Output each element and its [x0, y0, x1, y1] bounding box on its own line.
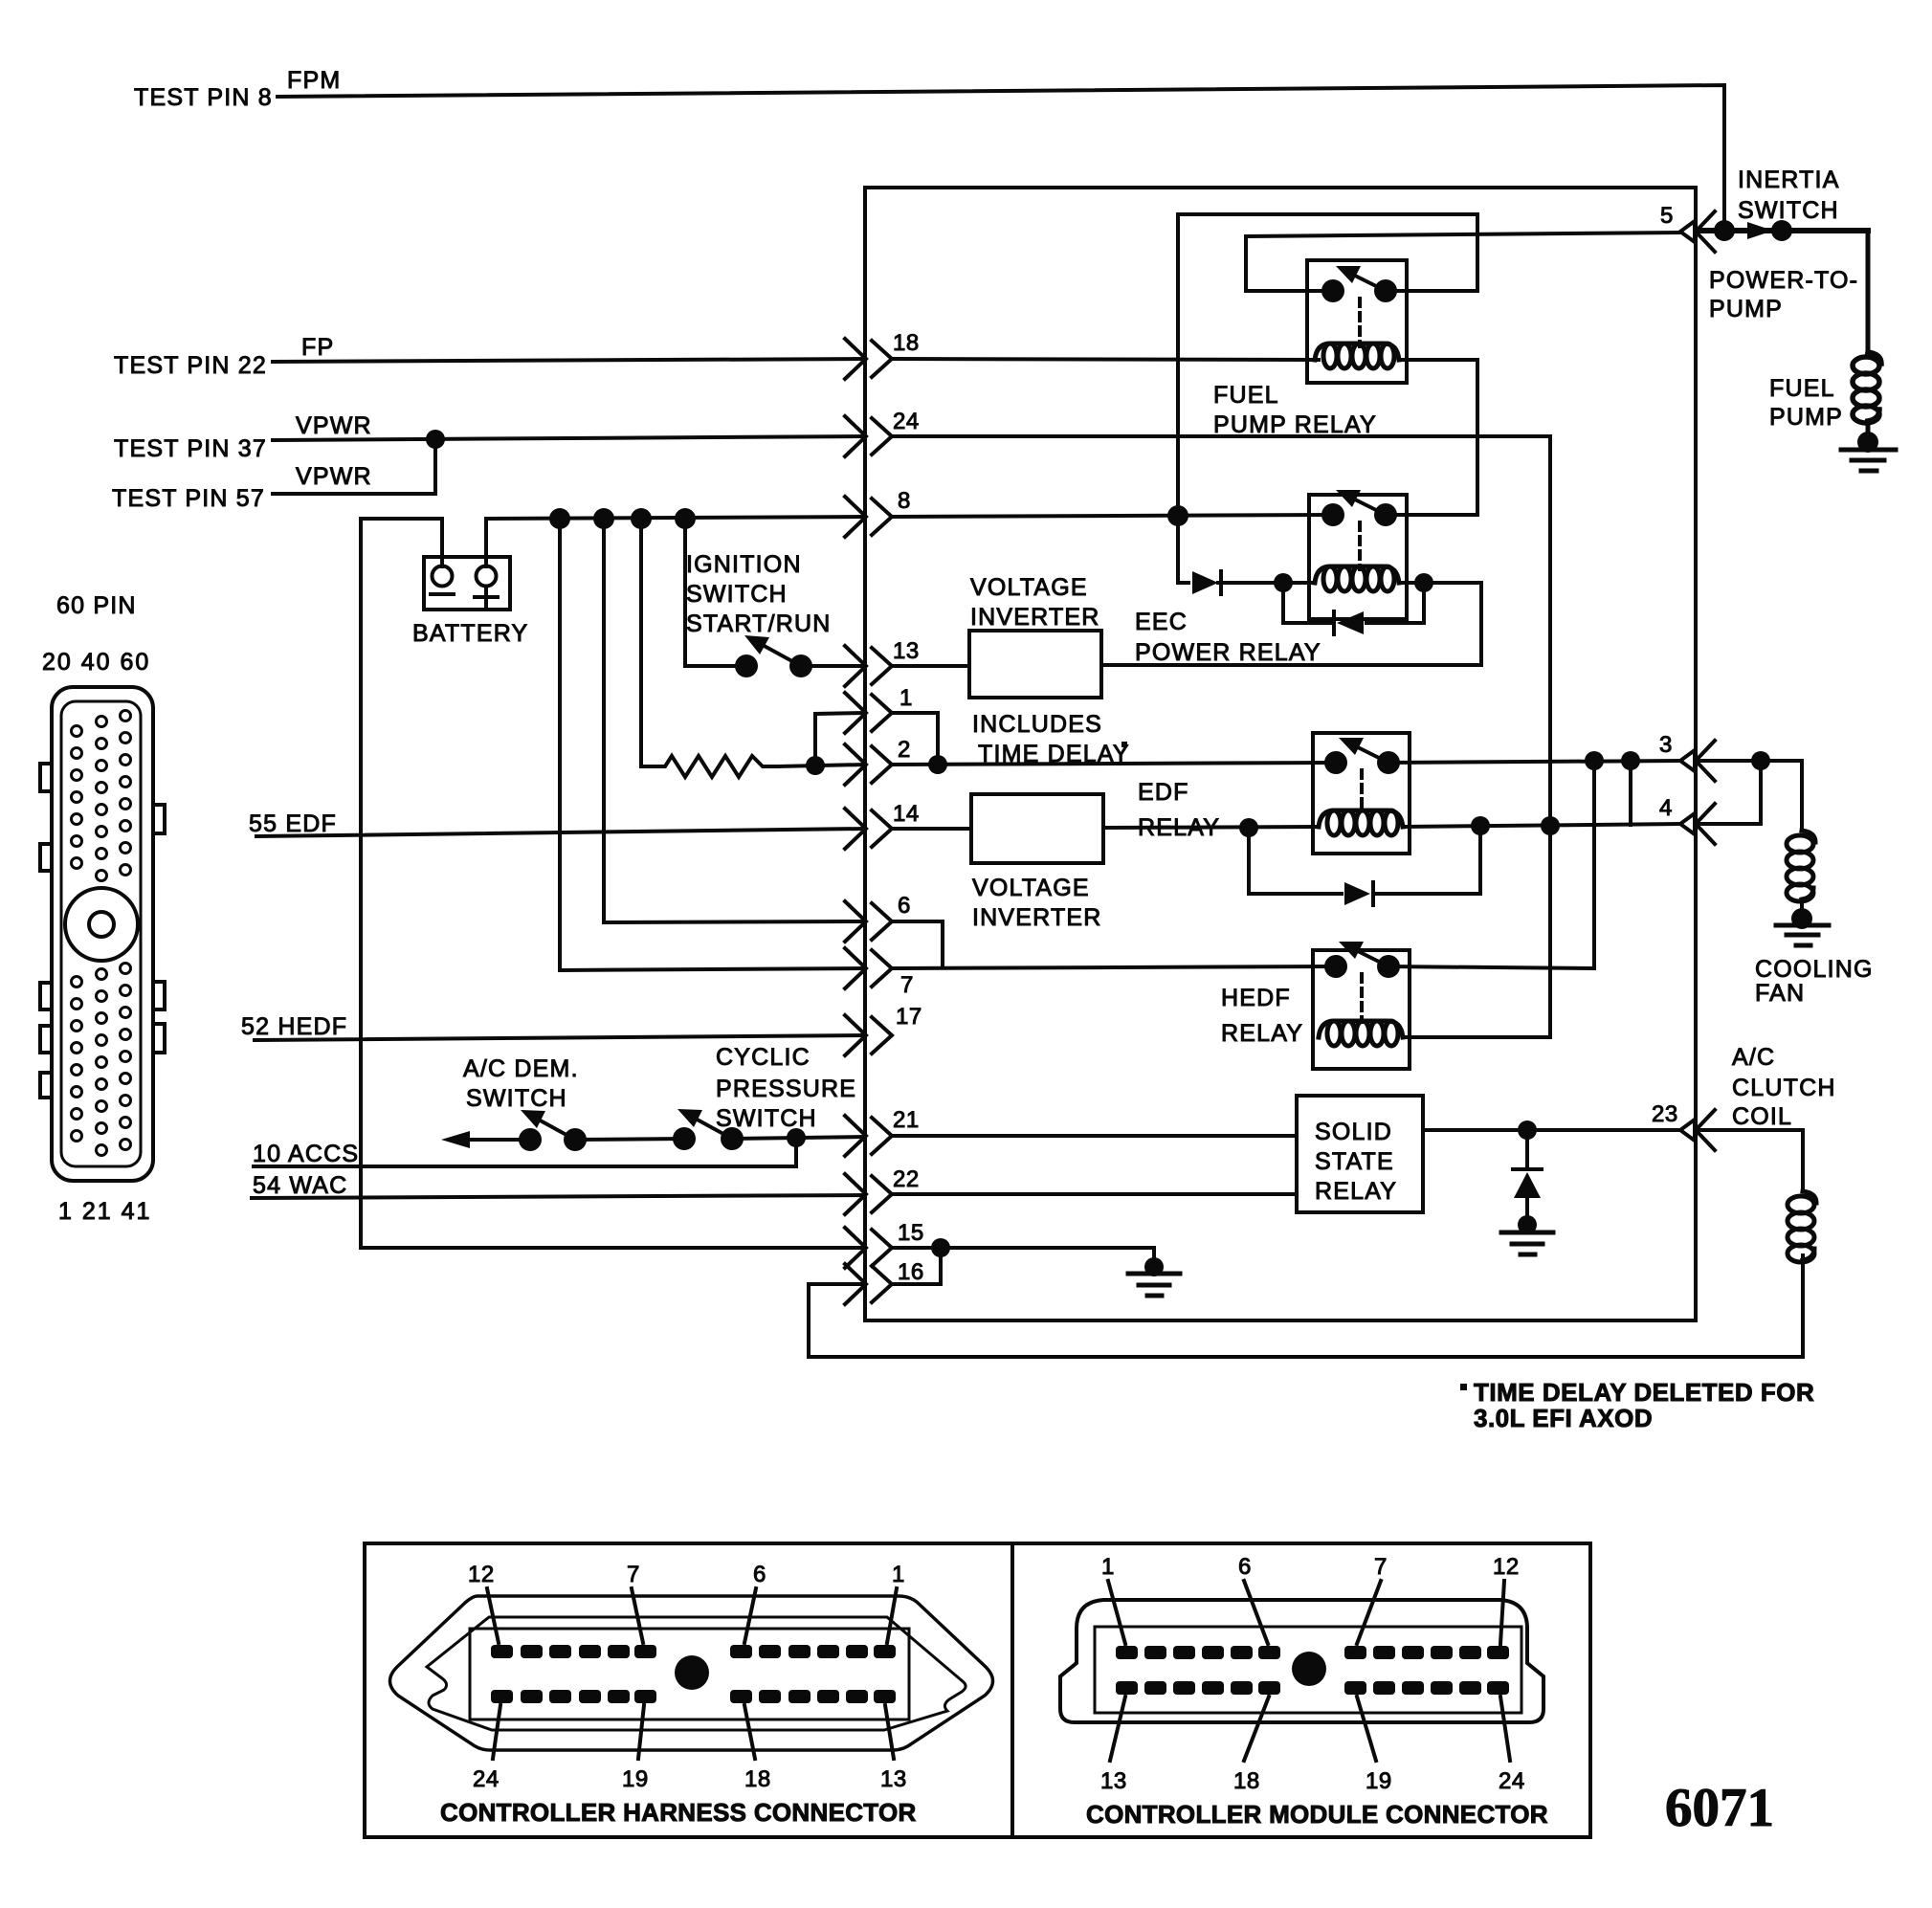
svg-text:CONTROLLER HARNESS CONNECTOR: CONTROLLER HARNESS CONNECTOR — [440, 1798, 917, 1827]
wire HEDF coil right to VPWR drop — [1403, 1035, 1550, 1039]
svg-text:1: 1 — [899, 685, 913, 711]
junction dot B on pin-8 feed — [593, 508, 614, 529]
svg-text:VOLTAGE: VOLTAGE — [970, 574, 1088, 601]
svg-text:CYCLIC: CYCLIC — [716, 1044, 811, 1071]
svg-text:PRESSURE: PRESSURE — [716, 1076, 856, 1102]
svg-text:TEST PIN 57: TEST PIN 57 — [112, 485, 265, 512]
svg-text:52 HEDF: 52 HEDF — [241, 1013, 347, 1040]
harness pin 6 label and leader — [744, 1562, 766, 1643]
svg-text:PUMP: PUMP — [1769, 404, 1843, 431]
HEDF relay left contact — [1324, 955, 1347, 978]
wire pin 13 to voltage inverter 1 — [892, 664, 969, 668]
svg-text:TEST PIN 37: TEST PIN 37 — [114, 435, 267, 462]
wire drop A to pin 7 — [560, 519, 865, 970]
EDF relay left contact — [1324, 751, 1347, 774]
wire FPM from TEST PIN 8 to inertia switch node — [278, 85, 1724, 231]
svg-text:24: 24 — [893, 409, 920, 434]
pin 5 connector chevron on rail — [1680, 211, 1715, 252]
wire pin 18 to fuel pump relay coil — [892, 359, 1319, 360]
EDF relay K3 box — [1313, 733, 1410, 854]
svg-text:STATE: STATE — [1315, 1148, 1394, 1175]
cyclic pressure switch left contact — [673, 1127, 696, 1150]
EEC power relay arm with arrowhead — [1336, 490, 1386, 515]
wire pin 8 to EEC relay switch — [892, 515, 1333, 517]
wire battery positive up to VPWR feed — [484, 519, 488, 566]
EEC power relay coil — [1315, 566, 1399, 591]
wire pin 7 to HEDF relay switch — [892, 966, 1333, 968]
connector J1 60-pin shell outer — [52, 687, 153, 1181]
module connector top row pins — [1116, 1646, 1509, 1659]
svg-text:24: 24 — [473, 1766, 500, 1792]
svg-text:5: 5 — [1660, 203, 1674, 229]
wire pin 16 left jog to A/C clutch return — [809, 1255, 1803, 1357]
module pin 13 label and leader — [1100, 1697, 1127, 1794]
EDF relay dashed actuator link — [1360, 770, 1364, 813]
svg-text:SOLID: SOLID — [1315, 1119, 1392, 1145]
pin 14 connector chevrons — [845, 809, 892, 849]
EEC power relay dashed actuator link — [1358, 522, 1362, 569]
fuel pump relay coil — [1315, 344, 1399, 368]
svg-text:HEDF: HEDF — [1221, 985, 1291, 1011]
svg-text:IGNITION: IGNITION — [686, 551, 802, 578]
ground symbol G4 (pin 15/16) — [1128, 1257, 1180, 1296]
svg-text:19: 19 — [1366, 1768, 1392, 1794]
svg-text:BATTERY: BATTERY — [412, 620, 528, 647]
pin 17 connector chevrons — [845, 1015, 892, 1055]
EEC power relay K2 box — [1309, 495, 1407, 619]
junction dot C on pin-8 feed — [631, 508, 652, 529]
HEDF relay dashed actuator link — [1360, 974, 1364, 1022]
svg-text:COOLING: COOLING — [1755, 956, 1874, 983]
svg-text:TIME DELAY DELETED FOR: TIME DELAY DELETED FOR — [1474, 1378, 1814, 1407]
wire inverter 1 output to EEC relay coil right — [1101, 583, 1481, 665]
EDF relay right contact — [1377, 751, 1400, 774]
junction dot pin3 at x1704 — [1621, 751, 1640, 770]
ground symbol G2 (cooling fan) — [1776, 908, 1829, 945]
pin 6 connector chevrons — [845, 901, 892, 942]
ground symbol G1 (fuel pump) — [1841, 432, 1896, 471]
wire HEDF switch-right riser — [1388, 761, 1594, 968]
cooling fan motor coil M2 — [1787, 831, 1815, 901]
svg-text:VPWR: VPWR — [296, 412, 372, 439]
wire fuel pump relay switch-right to riser — [1386, 289, 1477, 293]
wire A/C demand to cyclic pressure switch — [575, 1139, 684, 1140]
wire cooling fan to ground — [1800, 899, 1804, 909]
harness connector pin field rect — [470, 1629, 909, 1719]
wire EEC relay switch-right to VPWR riser — [1386, 513, 1477, 517]
svg-text:18: 18 — [744, 1766, 771, 1792]
wire drop to ground from pin15/16 — [1152, 1248, 1156, 1259]
wire EDF coil right to pin 4 — [1403, 824, 1680, 827]
harness pin 24 label and leader — [473, 1705, 500, 1792]
harness pin 12 label and leader — [468, 1562, 499, 1643]
battery plus sign — [475, 587, 498, 608]
wire pin 2 to EDF relay switch — [892, 763, 1333, 765]
svg-text:1: 1 — [892, 1562, 905, 1587]
battery B1 box — [424, 557, 510, 610]
wire diode to EEC coil — [1283, 581, 1315, 585]
pin 15 connector chevrons — [845, 1228, 892, 1268]
pin 13 connector chevrons — [845, 646, 892, 686]
module pin 18 label and leader — [1233, 1697, 1269, 1794]
svg-text:18: 18 — [1233, 1768, 1260, 1794]
svg-text:7: 7 — [1374, 1554, 1388, 1580]
junction dot EDF flyback right — [1471, 816, 1490, 835]
harness pin 7 label and leader — [627, 1562, 643, 1643]
svg-text:10 ACCS: 10 ACCS — [253, 1141, 359, 1167]
wire pin 3 to cooling fan — [1696, 761, 1802, 831]
wire pin 16 jumper up to pin 15 — [892, 1248, 941, 1284]
svg-text:A/C DEM.: A/C DEM. — [463, 1055, 579, 1082]
wire pin 6 jumper down to pin 7 line — [892, 921, 943, 967]
HEDF relay right contact — [1377, 955, 1400, 978]
wire drop C to resistor — [641, 519, 657, 766]
harness pin 13 label and leader — [880, 1705, 907, 1792]
battery minus sign — [431, 592, 454, 596]
svg-text:55 EDF: 55 EDF — [249, 810, 337, 837]
svg-text:13: 13 — [893, 638, 920, 664]
svg-text:2: 2 — [898, 737, 911, 763]
HEDF relay coil — [1319, 1021, 1403, 1046]
svg-text:INCLUDES: INCLUDES — [972, 711, 1102, 738]
wire pin 1 to pin 2 jumper right side — [892, 713, 938, 765]
svg-text:EDF: EDF — [1138, 779, 1189, 806]
A/C demand switch open-end arrow — [441, 1131, 530, 1148]
wire 10 ACCS jog — [254, 1138, 796, 1166]
wire VPWR riser to fuel pump relay common — [1178, 214, 1477, 516]
pin 23 connector chevron on rail — [1680, 1110, 1715, 1150]
voltage inverter U2 box — [971, 794, 1103, 863]
svg-text:24: 24 — [1499, 1768, 1525, 1794]
svg-text:TEST PIN 22: TEST PIN 22 — [114, 352, 267, 379]
module pin 12 label and leader — [1493, 1554, 1520, 1644]
junction dot pin 15 right — [931, 1238, 950, 1257]
harness pin 18 label and leader — [744, 1705, 771, 1792]
junction dot cooling fan tap — [1751, 751, 1770, 770]
wire resistor to pin 2 — [778, 765, 865, 766]
module pin 19 label and leader — [1357, 1697, 1392, 1794]
fuel pump relay dashed actuator link — [1358, 299, 1362, 346]
svg-text:SWITCH: SWITCH — [686, 581, 788, 608]
svg-text:1: 1 — [1101, 1554, 1115, 1580]
EEC module box right rail — [1694, 188, 1698, 1320]
module pin 1 label and leader — [1101, 1554, 1125, 1644]
svg-text:6071: 6071 — [1665, 1778, 1774, 1838]
svg-text:1 21 41: 1 21 41 — [58, 1198, 151, 1225]
svg-text:15: 15 — [898, 1220, 924, 1246]
battery terminal positive circle — [477, 566, 497, 587]
HEDF relay K4 box — [1313, 950, 1410, 1069]
svg-text:INVERTER: INVERTER — [970, 604, 1100, 631]
inertia switch right contact — [1771, 220, 1792, 241]
clamp diode D4 to ground — [1513, 1130, 1542, 1216]
svg-text:CLUTCH: CLUTCH — [1732, 1075, 1836, 1101]
note asterisk — [1460, 1384, 1467, 1390]
ignition switch left contact — [735, 654, 758, 677]
svg-text:FAN: FAN — [1755, 980, 1805, 1007]
wire inertia switch down to fuel pump (heavy) — [1866, 231, 1871, 352]
label TIME DELAY* — [978, 741, 1130, 767]
inertia switch left contact — [1714, 220, 1735, 241]
ignition switch right contact — [789, 654, 812, 677]
wire ignition switch to pin 13 — [801, 664, 865, 668]
junction dot pin 2 right — [928, 755, 947, 774]
svg-text:17: 17 — [896, 1004, 922, 1030]
svg-text:19: 19 — [622, 1766, 649, 1792]
pin 21 connector chevrons — [845, 1116, 892, 1156]
fuel pump relay left contact — [1321, 279, 1344, 302]
svg-text:16: 16 — [898, 1259, 924, 1285]
svg-text:PUMP: PUMP — [1709, 296, 1783, 322]
connector J1 left tabs — [40, 764, 52, 1098]
cyclic pressure switch right contact — [721, 1127, 744, 1150]
junction dot EEC coil left — [1274, 573, 1293, 592]
wire drop D to ignition switch — [685, 519, 746, 666]
svg-text:COIL: COIL — [1732, 1103, 1792, 1130]
diode D1 EEC coil feed — [1192, 571, 1283, 594]
svg-text:7: 7 — [900, 972, 914, 998]
svg-text:6: 6 — [1238, 1554, 1252, 1580]
wire EDF switch right to pin 3 — [1388, 761, 1680, 763]
solid state relay U3 box — [1297, 1096, 1423, 1212]
inertia switch arrow — [1747, 222, 1773, 239]
svg-text:6: 6 — [753, 1562, 766, 1587]
svg-text:7: 7 — [627, 1562, 640, 1587]
svg-text:6: 6 — [898, 893, 911, 919]
pin 18 connector chevrons — [845, 339, 892, 379]
harness connector top row pins — [491, 1645, 896, 1658]
connector J1 right tabs — [153, 805, 165, 1053]
module pin 6 label and leader — [1238, 1554, 1268, 1644]
wire pin 5 to inertia switch (heavy) — [1698, 228, 1868, 233]
junction dot ACCS tap — [787, 1128, 806, 1147]
ignition switch arm with arrowhead — [744, 635, 801, 666]
fuel pump relay right contact — [1374, 279, 1397, 302]
pin 4 connector chevron on rail — [1680, 804, 1715, 844]
module connector pin field rect — [1095, 1627, 1521, 1713]
svg-text:SWITCH: SWITCH — [1738, 197, 1839, 224]
wire 55 EDF to pin 14 — [256, 829, 865, 836]
pin 2 connector chevrons — [845, 744, 892, 785]
svg-text:14: 14 — [893, 801, 920, 827]
svg-text:13: 13 — [880, 1766, 907, 1792]
pin 24 connector chevrons — [845, 416, 892, 456]
wire EEC coil right — [1399, 581, 1481, 585]
svg-text:4: 4 — [1659, 795, 1673, 821]
module pin 7 label and leader — [1357, 1554, 1388, 1644]
fuel pump motor coil M1 — [1853, 352, 1881, 423]
wire pin 23 to A/C clutch coil — [1696, 1130, 1803, 1191]
wire battery negative up to ground rail — [440, 519, 444, 566]
svg-text:21: 21 — [893, 1107, 920, 1133]
ground symbol G3 (clamp diode) — [1501, 1215, 1553, 1254]
connector J1 pin holes upper block — [72, 711, 131, 881]
junction dot VPWR drop on EDF coil line — [1541, 816, 1560, 835]
fuel pump relay K1 box — [1307, 260, 1407, 383]
svg-text:12: 12 — [468, 1562, 495, 1587]
svg-text:RELAY: RELAY — [1315, 1178, 1397, 1205]
cyclic pressure switch arm with arrowhead — [677, 1109, 732, 1139]
HEDF relay arm with arrowhead — [1339, 942, 1388, 966]
wire FP to pin 18 — [273, 359, 865, 362]
svg-text:INERTIA: INERTIA — [1738, 166, 1840, 193]
harness pin 19 label and leader — [622, 1705, 649, 1792]
junction dot SSR output — [1518, 1120, 1537, 1140]
svg-text:FP: FP — [301, 334, 334, 361]
svg-text:23: 23 — [1652, 1101, 1678, 1127]
svg-text:TEST PIN 8: TEST PIN 8 — [134, 84, 273, 111]
junction dot EDF coil left — [1239, 818, 1258, 837]
svg-text:POWER RELAY: POWER RELAY — [1135, 639, 1321, 666]
svg-text:12: 12 — [1493, 1554, 1520, 1580]
junction dot D on pin-8 feed — [675, 508, 696, 529]
pin 3 connector chevron on rail — [1680, 741, 1715, 781]
EDF relay arm with arrowhead — [1339, 738, 1388, 763]
connector J1 shell inner — [61, 701, 141, 1166]
wire 52 HEDF to pin 17 — [255, 1035, 865, 1040]
connector J1 index inner circle — [89, 912, 114, 937]
controller module connector panel box — [1012, 1543, 1590, 1837]
wire drop B to pin 6 — [604, 519, 865, 922]
junction VPWR tie point — [426, 430, 445, 449]
connector J1 pin holes lower block — [72, 964, 131, 1156]
junction dot A on pin-8 feed — [549, 508, 570, 529]
wire 54 WAC to pin 22 — [252, 1195, 865, 1198]
pin 7 connector chevrons — [845, 948, 892, 988]
connector J1 index big circle — [65, 888, 138, 961]
pin 16 connector chevrons — [845, 1264, 892, 1304]
svg-text:60 PIN: 60 PIN — [56, 592, 137, 619]
module connector bottom row pins — [1116, 1681, 1509, 1695]
EDF relay coil — [1319, 810, 1403, 835]
wire fuel pump to ground — [1866, 421, 1871, 435]
svg-text:18: 18 — [893, 330, 920, 356]
harness pin 1 label and leader — [887, 1562, 905, 1643]
harness connector bottom row pins — [491, 1690, 896, 1703]
wire cyclic pressure switch to pin 21 — [732, 1137, 865, 1139]
wire ground rail: battery negative to pin 15 — [361, 519, 865, 1248]
svg-text:22: 22 — [893, 1166, 920, 1192]
battery terminal negative circle — [433, 566, 453, 587]
pin 1 connector chevrons — [845, 693, 892, 733]
svg-text:POWER-TO-: POWER-TO- — [1709, 267, 1858, 294]
EDF relay flyback diode D3 loop — [1249, 826, 1480, 905]
junction dot pin-8 at x1231 — [1167, 505, 1188, 526]
svg-text:VPWR: VPWR — [296, 463, 372, 490]
svg-text:RELAY: RELAY — [1138, 814, 1220, 841]
A/C demand switch arm with arrowhead — [521, 1110, 575, 1140]
wire VPWR to pin 24 — [273, 436, 865, 440]
svg-text:FUEL: FUEL — [1769, 375, 1835, 402]
svg-text:SWITCH: SWITCH — [466, 1085, 567, 1112]
wire VPWR feed: battery positive to pin 8 — [486, 517, 865, 519]
EEC module bus vertical — [863, 188, 867, 1320]
svg-text:EEC: EEC — [1135, 609, 1188, 635]
wire jog resistor node up to pin 1 — [815, 713, 865, 765]
wire fuel pump relay coil right to VPWR — [1399, 360, 1477, 515]
harness connector shell inner hexagon — [427, 1617, 966, 1730]
svg-text:3.0L EFI AXOD: 3.0L EFI AXOD — [1474, 1404, 1653, 1432]
EEC relay flyback diode D2 loop — [1283, 583, 1424, 634]
controller harness connector panel box — [365, 1543, 1012, 1837]
wire pin 4 jumper to pin 3 — [1696, 761, 1761, 824]
wire pin4 jog from pin3 line — [1629, 761, 1632, 825]
module connector center index dot — [1292, 1652, 1326, 1686]
svg-text:8: 8 — [898, 488, 911, 514]
svg-text:VOLTAGE: VOLTAGE — [972, 875, 1090, 901]
fuel pump relay arm with arrowhead — [1336, 266, 1386, 291]
svg-text:54 WAC: 54 WAC — [253, 1172, 347, 1199]
svg-text:CONTROLLER MODULE CONNECTOR: CONTROLLER MODULE CONNECTOR — [1086, 1800, 1548, 1829]
svg-text:START/RUN: START/RUN — [686, 610, 832, 637]
wire pin 24 VPWR line — [892, 434, 1550, 438]
module pin 24 label and leader — [1499, 1697, 1525, 1794]
EEC module box bottom edge — [865, 1319, 1696, 1322]
wire pin 21 to solid state relay — [892, 1134, 1297, 1138]
A/C demand switch right contact — [564, 1128, 587, 1151]
junction dot after resistor — [806, 756, 825, 775]
wire pin 15 to ground drop — [892, 1246, 1154, 1250]
pin 22 connector chevrons — [845, 1174, 892, 1214]
svg-text:TIME DELAY: TIME DELAY — [978, 741, 1130, 767]
svg-text:20 40 60: 20 40 60 — [42, 649, 150, 676]
pin 8 connector chevrons — [845, 497, 892, 537]
EEC power relay right contact — [1374, 503, 1397, 526]
svg-text:INVERTER: INVERTER — [972, 904, 1102, 931]
svg-text:PUMP RELAY: PUMP RELAY — [1213, 411, 1377, 438]
wire inverter 2 output to EDF relay coil — [1103, 827, 1319, 828]
junction dot pin3 at x1666 — [1585, 751, 1604, 770]
EEC module box top edge — [865, 186, 1696, 189]
wire pin 22 to solid state relay — [892, 1192, 1297, 1196]
A/C demand switch left contact — [519, 1128, 542, 1151]
junction dot EEC coil right — [1414, 573, 1433, 592]
svg-text:3: 3 — [1659, 732, 1673, 758]
wire fuel pump relay output to pin 5 — [1246, 233, 1680, 291]
harness connector center index dot — [675, 1655, 709, 1690]
voltage inverter U1 box — [969, 631, 1101, 698]
wire TEST PIN 57 VPWR jog up to pin-37 line — [273, 439, 435, 494]
wire pin 14 to voltage inverter 2 — [892, 827, 971, 831]
wire pin-8 node down to EEC coil feed diode — [1178, 516, 1188, 583]
harness connector shell outer hexagon — [390, 1596, 993, 1750]
svg-text:A/C: A/C — [1732, 1044, 1775, 1071]
svg-text:FUEL: FUEL — [1213, 382, 1279, 409]
svg-text:FPM: FPM — [287, 67, 341, 94]
wire solid state relay output to pin 23 — [1423, 1128, 1680, 1132]
A/C clutch coil L1 — [1788, 1191, 1816, 1262]
module connector shell — [1060, 1600, 1543, 1722]
svg-text:RELAY: RELAY — [1221, 1020, 1303, 1047]
svg-text:13: 13 — [1100, 1768, 1127, 1794]
EEC power relay left contact — [1321, 503, 1344, 526]
wire VPWR long drop x1620 — [1548, 436, 1552, 1037]
resistor R1 — [657, 756, 778, 777]
